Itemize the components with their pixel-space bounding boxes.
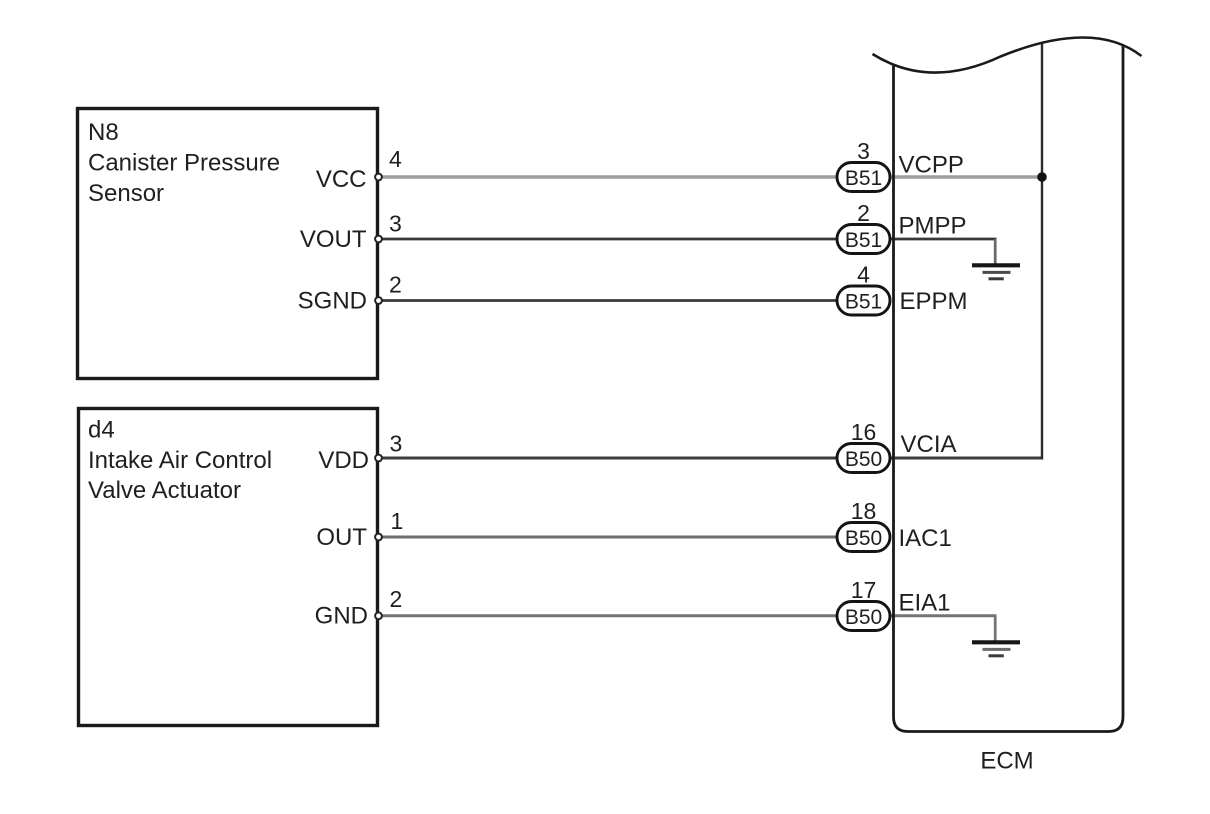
svg-text:B51: B51	[845, 291, 882, 314]
ECM body outline	[894, 45, 1124, 732]
pin circle VDD	[375, 455, 382, 462]
wire OUT to IAC1	[381, 536, 891, 539]
pin circle VOUT	[375, 236, 382, 243]
svg-text:3: 3	[390, 431, 403, 457]
pin circle SGND	[375, 297, 382, 304]
svg-text:OUT: OUT	[316, 524, 367, 551]
svg-text:N8: N8	[88, 119, 119, 146]
svg-text:B51: B51	[845, 167, 882, 190]
svg-text:VDD: VDD	[318, 447, 369, 474]
connector B50 pin 17 (EIA1)	[837, 577, 890, 631]
wire EIA1 ground drop	[994, 616, 997, 642]
svg-text:16: 16	[851, 419, 877, 445]
wire GND to EIA1	[381, 614, 997, 617]
svg-text:2: 2	[390, 586, 403, 612]
svg-text:EIA1: EIA1	[899, 590, 951, 617]
svg-text:Sensor: Sensor	[88, 180, 164, 207]
svg-text:B50: B50	[845, 448, 882, 471]
pin circle OUT	[375, 534, 382, 541]
svg-text:3: 3	[857, 138, 870, 164]
node junction dot VCPP/VCIA	[1037, 172, 1047, 182]
wire VCIA vertical riser to junction	[1041, 43, 1043, 460]
svg-text:2: 2	[389, 272, 402, 298]
svg-text:d4: d4	[88, 417, 115, 444]
svg-text:SGND: SGND	[298, 288, 367, 315]
svg-text:B51: B51	[845, 229, 882, 252]
svg-text:2: 2	[857, 200, 870, 226]
ground symbol (PMPP)	[972, 265, 1020, 279]
svg-text:EPPM: EPPM	[900, 288, 968, 315]
wire PMPP ground drop	[994, 239, 997, 265]
svg-text:4: 4	[389, 146, 402, 172]
svg-text:VCC: VCC	[316, 166, 367, 193]
wire VDD to VCIA	[381, 457, 1042, 460]
svg-text:VOUT: VOUT	[300, 226, 367, 253]
svg-text:17: 17	[851, 577, 877, 603]
svg-text:VCPP: VCPP	[899, 152, 964, 179]
connector B51 pin 2 (PMPP)	[837, 200, 890, 254]
connector B50 pin 16 (VCIA)	[837, 419, 890, 473]
svg-text:B50: B50	[845, 527, 882, 550]
wire SGND to EPPM	[381, 299, 891, 302]
ECM torn-edge wave top	[873, 37, 1142, 72]
svg-text:ECM: ECM	[980, 748, 1033, 775]
svg-text:1: 1	[391, 508, 404, 534]
svg-text:Intake Air Control: Intake Air Control	[88, 447, 272, 474]
svg-text:Valve Actuator: Valve Actuator	[88, 477, 241, 504]
svg-text:B50: B50	[845, 606, 882, 629]
component d4 Intake Air Control Valve Actuator box	[79, 409, 378, 726]
svg-text:PMPP: PMPP	[899, 213, 967, 240]
ground symbol (EIA1)	[972, 642, 1020, 656]
connector B50 pin 18 (IAC1)	[837, 498, 890, 552]
wire VCC to VCPP (gray)	[381, 175, 1042, 178]
connector B51 pin 4 (EPPM)	[837, 262, 890, 316]
pin circle VCC	[375, 174, 382, 181]
svg-text:IAC1: IAC1	[899, 525, 952, 552]
svg-text:VCIA: VCIA	[901, 431, 957, 458]
svg-text:18: 18	[851, 498, 877, 524]
svg-text:GND: GND	[315, 603, 368, 630]
wire VOUT to PMPP	[381, 238, 997, 241]
svg-text:3: 3	[389, 211, 402, 237]
connector B51 pin 3 (VCPP)	[837, 138, 890, 192]
pin circle GND	[375, 612, 382, 619]
svg-text:4: 4	[857, 262, 870, 288]
component N8 Canister Pressure Sensor box	[78, 109, 378, 379]
svg-text:Canister Pressure: Canister Pressure	[88, 150, 280, 177]
